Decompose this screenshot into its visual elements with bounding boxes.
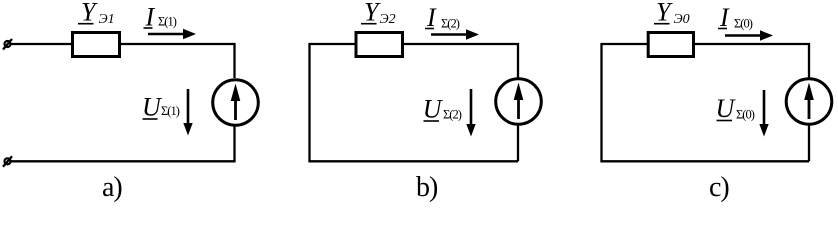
svg-text:Σ(0): Σ(0) bbox=[734, 17, 753, 31]
current label I_Σ(1) bbox=[144, 3, 177, 32]
current direction arrow (b) bbox=[431, 29, 479, 39]
svg-text:Y: Y bbox=[364, 0, 381, 27]
svg-text:Σ(1): Σ(1) bbox=[161, 104, 180, 118]
svg-text:Y: Y bbox=[81, 0, 98, 27]
label Y_Э0 bbox=[654, 0, 690, 27]
wire: left side and bottom (b) bbox=[310, 44, 519, 161]
voltage arrow (b) bbox=[466, 89, 475, 137]
wire: box to current source (top right, b) bbox=[404, 44, 518, 78]
current direction arrow (a) bbox=[148, 29, 196, 39]
wire: current source to bottom wire bbox=[11, 126, 235, 161]
voltage arrow (c) bbox=[759, 90, 768, 137]
terminal (bottom-left, open) bbox=[3, 156, 12, 167]
voltage label U_Σ(2) bbox=[423, 95, 462, 124]
svg-text:Э0: Э0 bbox=[674, 12, 690, 27]
wire: box to current source (top right, c) bbox=[694, 44, 810, 78]
current direction arrow (c) bbox=[725, 30, 773, 40]
current source J1 bbox=[213, 80, 259, 126]
voltage label U_Σ(0) bbox=[716, 94, 755, 123]
current source J0 bbox=[786, 79, 832, 125]
current source J2 bbox=[496, 79, 542, 125]
svg-text:Э1: Э1 bbox=[99, 12, 115, 27]
svg-text:b): b) bbox=[416, 172, 438, 203]
svg-text:U: U bbox=[423, 95, 444, 124]
terminal (top-left, open) bbox=[3, 39, 12, 50]
svg-text:Σ(2): Σ(2) bbox=[441, 17, 460, 31]
svg-text:I: I bbox=[426, 3, 437, 32]
svg-text:Σ(2): Σ(2) bbox=[443, 108, 462, 122]
voltage label U_Σ(1) bbox=[142, 93, 180, 122]
svg-text:Σ(0): Σ(0) bbox=[736, 108, 755, 122]
wire: left side and bottom (c) bbox=[602, 44, 810, 161]
admittance box Y_Э0 bbox=[648, 33, 693, 57]
svg-text:U: U bbox=[716, 94, 737, 123]
svg-text:c): c) bbox=[709, 172, 729, 203]
label Y_Э1 bbox=[78, 0, 115, 27]
svg-text:Y: Y bbox=[656, 0, 673, 27]
svg-text:I: I bbox=[145, 3, 156, 32]
wire: top terminal to admittance box bbox=[11, 43, 72, 45]
label Y_Э2 bbox=[361, 0, 396, 27]
svg-text:Σ(1): Σ(1) bbox=[158, 15, 177, 29]
svg-text:a): a) bbox=[102, 172, 122, 203]
admittance box Y_Э1 bbox=[73, 33, 120, 57]
wire: current source to bottom wire (c) bbox=[808, 125, 810, 161]
voltage arrow (a) bbox=[183, 89, 192, 136]
wire: current source to bottom wire (b) bbox=[517, 125, 519, 161]
current label I_Σ(2) bbox=[425, 3, 460, 32]
admittance box Y_Э2 bbox=[356, 33, 403, 57]
svg-text:I: I bbox=[719, 3, 730, 32]
svg-text:Э2: Э2 bbox=[380, 12, 396, 27]
current label I_Σ(0) bbox=[718, 3, 753, 32]
svg-text:U: U bbox=[142, 93, 163, 122]
wire: box to current source (top right) bbox=[121, 44, 235, 78]
